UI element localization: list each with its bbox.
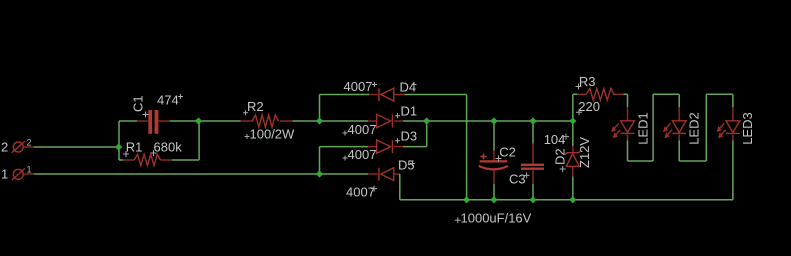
capacitor C3: [509, 132, 569, 187]
zener diode D2: [553, 137, 592, 177]
wire D3 row left: [320, 146, 369, 148]
junction C2 top: [490, 117, 497, 124]
wire R2 to node C: [293, 120, 320, 122]
wire zener lead: [572, 121, 574, 146]
wire terminal2 to node A: [34, 146, 119, 148]
resistor R3: [573, 74, 624, 116]
wire node A vertical: [118, 121, 120, 160]
svg-text:C1: C1: [131, 95, 146, 112]
wire node C2 down-vertical D3 to node F: [319, 147, 321, 174]
wire D3 to riser: [403, 146, 427, 148]
svg-text:1000uF/16V: 1000uF/16V: [461, 211, 532, 226]
wire D4 anode down to bottom rail: [466, 95, 468, 200]
svg-text:2: 2: [27, 138, 32, 148]
svg-text:LED2: LED2: [687, 112, 702, 145]
wire D3 cathode up to node D: [426, 121, 428, 147]
svg-text:100/2W: 100/2W: [250, 127, 296, 142]
svg-text:474: 474: [157, 93, 179, 108]
svg-text:1: 1: [1, 167, 8, 182]
svg-text:LED1: LED1: [636, 112, 651, 145]
wire positive rail node D to zener node: [427, 120, 573, 122]
junction rail zener: [569, 196, 576, 203]
svg-text:220: 220: [578, 99, 600, 114]
diode D3: [343, 129, 418, 163]
wire LED1 bottom to riser1: [627, 140, 629, 161]
svg-text:C2: C2: [499, 144, 516, 159]
wire LED2 bottom to riser2: [678, 140, 680, 161]
wire D4 row left: [320, 94, 370, 96]
wire LED1 lead top: [627, 94, 629, 107]
svg-text:D3: D3: [401, 129, 418, 144]
node B junction: [195, 117, 202, 124]
node A junction: [115, 143, 122, 150]
svg-text:1: 1: [27, 165, 32, 175]
svg-text:680k: 680k: [154, 140, 183, 155]
wire LED3 down to bottom rail: [732, 140, 734, 200]
svg-text:4007: 4007: [346, 185, 375, 200]
wire node C to D1: [320, 120, 369, 122]
wire node C up to D4 row: [319, 95, 321, 122]
node D junction: [423, 117, 430, 124]
junction C3 top: [529, 117, 536, 124]
wire C2 lead: [493, 121, 495, 151]
node F junction: [316, 170, 323, 177]
svg-text:LED3: LED3: [740, 112, 755, 145]
wire D4 row right: [405, 94, 467, 96]
LED LED1: [612, 107, 650, 145]
wire terminal1 to node F to D5: [34, 173, 368, 175]
LED LED2: [664, 107, 702, 145]
svg-text:4007: 4007: [348, 147, 377, 162]
wire riser1: [652, 94, 654, 161]
resistor R1: [119, 140, 199, 166]
svg-text:D2: D2: [553, 148, 568, 165]
resistor R2: [241, 99, 295, 142]
svg-text:C3: C3: [509, 172, 526, 187]
diode D4: [344, 79, 417, 101]
junction zener top: [569, 117, 576, 124]
wire top seg to LED2: [653, 93, 679, 95]
svg-text:R2: R2: [247, 99, 264, 114]
wire node B vertical: [198, 121, 200, 160]
junction rail C2: [490, 196, 497, 203]
capacitor C1: [131, 93, 184, 134]
wire D1 to node D: [403, 120, 427, 122]
capacitor C2 (polarized): [455, 144, 532, 225]
terminal 1 (screw terminal): [1, 165, 34, 182]
wire R3 to LED1: [623, 93, 627, 95]
wire LED2 lead top: [678, 94, 680, 107]
wire C1 row right: [170, 120, 199, 122]
svg-text:2: 2: [1, 140, 8, 155]
svg-text:R1: R1: [126, 140, 143, 155]
junction rail C3: [529, 196, 536, 203]
svg-text:4007: 4007: [344, 79, 373, 94]
diode D5: [346, 158, 415, 200]
wire zener node up to R3: [572, 94, 574, 121]
diode D1: [343, 104, 418, 138]
wire bottom rail: [400, 199, 733, 201]
svg-text:D1: D1: [401, 104, 418, 119]
svg-text:4007: 4007: [348, 122, 377, 137]
wire C1 row left: [119, 120, 137, 122]
svg-text:Z12V: Z12V: [577, 137, 592, 168]
wire LED3 lead top: [732, 94, 734, 107]
wire C3 lead: [532, 121, 534, 144]
wire riser2: [705, 94, 707, 161]
junction rail D4: [463, 196, 470, 203]
terminal 2 (screw terminal): [1, 138, 34, 155]
wire node B to R2: [199, 120, 241, 122]
node C junction: [316, 117, 323, 124]
svg-text:104: 104: [544, 132, 566, 147]
wire top seg to LED3: [706, 93, 733, 95]
LED LED3: [718, 107, 756, 145]
wire D5 anode down: [399, 174, 401, 200]
